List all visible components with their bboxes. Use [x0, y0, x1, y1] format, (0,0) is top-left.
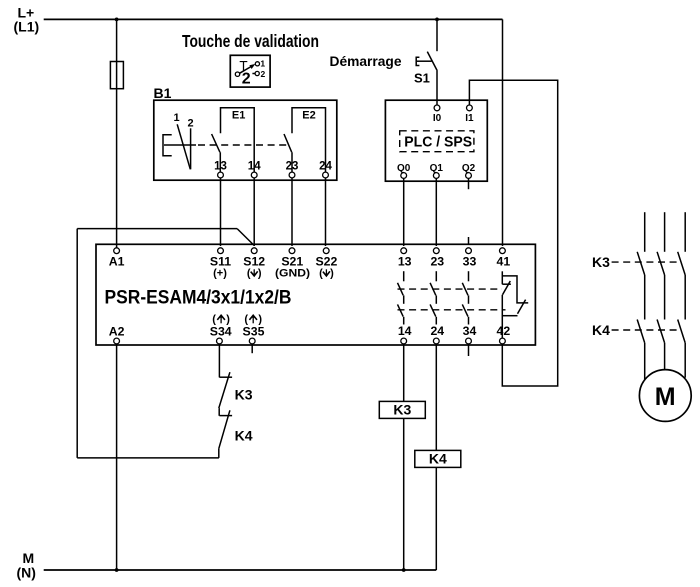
- svg-text:34: 34: [463, 324, 477, 338]
- wire rail to A1: [116, 19, 118, 247]
- svg-text:S12: S12: [243, 254, 265, 268]
- svg-text:S21: S21: [281, 254, 303, 268]
- svg-text:Touche de validation: Touche de validation: [182, 31, 319, 51]
- svg-text:E2: E2: [302, 110, 315, 122]
- svg-text:S11: S11: [210, 254, 231, 268]
- wire 14 to K3 coil: [403, 344, 405, 402]
- wire 13(B1) to S11: [220, 178, 222, 246]
- svg-text:K4: K4: [235, 428, 253, 444]
- terminal circle 41: [500, 248, 506, 254]
- aux contact K3 seat: [219, 376, 232, 378]
- wire 24(B1) to S22: [325, 178, 327, 246]
- svg-text:2: 2: [187, 118, 193, 130]
- wire Q2 stub: [468, 178, 470, 189]
- stub below S35: [251, 344, 253, 353]
- PLC / SPS dashed box: [400, 131, 474, 152]
- svg-text:I0: I0: [433, 113, 442, 124]
- svg-text:24: 24: [319, 161, 332, 173]
- B1 wire blade to 13: [219, 152, 221, 172]
- K4 contactor dashed linkage: [612, 329, 681, 331]
- B1 position line 2: [190, 128, 192, 169]
- svg-text:14: 14: [398, 324, 412, 338]
- B1 actuator bracket: [163, 135, 172, 156]
- aux contact K4 seat: [219, 415, 232, 417]
- wire S34 to K3 aux contact: [218, 344, 220, 378]
- svg-text:(: (: [319, 267, 323, 279]
- terminal circle S21: [289, 248, 295, 254]
- svg-text:S34: S34: [210, 324, 232, 338]
- PLC terminal circle I0: [434, 105, 440, 111]
- K4 contactor blade 3: [678, 320, 686, 343]
- terminal circle 23: [433, 248, 439, 254]
- B1 contact E2 blade: [284, 134, 292, 152]
- wire Q0 to 13: [403, 178, 405, 246]
- safety relay main box PSR-ESAM: [96, 244, 535, 345]
- label (up arrow) S35: [244, 313, 262, 325]
- wire A2 to bottom rail: [116, 344, 118, 570]
- PLC terminal circle Q1: [433, 173, 439, 179]
- B1 actuator line dashed: [198, 144, 290, 146]
- svg-text:1: 1: [173, 112, 179, 124]
- svg-text:A2: A2: [109, 324, 125, 338]
- K3 contactor blade 2: [657, 252, 665, 275]
- K3 contactor blade 3: [678, 252, 686, 275]
- svg-text:B1: B1: [154, 85, 172, 101]
- terminal circle A1: [114, 248, 120, 254]
- mechanical linkage dashed row 2: [398, 309, 506, 311]
- relay contact column 33-34: [462, 271, 468, 324]
- wire Q1 to 23: [435, 178, 437, 246]
- terminal circle 33: [466, 248, 472, 254]
- B1 position diagonal 1: [177, 124, 190, 169]
- validation key position 2 stub: [252, 73, 255, 75]
- wire I1 to 42 feedback loop: [469, 80, 557, 386]
- junction dot S1 tap: [435, 18, 439, 22]
- svg-text:K3: K3: [235, 386, 253, 402]
- svg-text:): ): [258, 267, 262, 279]
- svg-text:E1: E1: [232, 110, 245, 122]
- svg-text:13: 13: [214, 161, 227, 173]
- svg-text:PLC / SPS: PLC / SPS: [404, 134, 472, 150]
- terminal circle 24: [433, 338, 439, 344]
- wire S1 to I0: [436, 71, 438, 105]
- terminal circle S12: [251, 248, 257, 254]
- B1 terminal circle 14: [251, 172, 257, 178]
- wire 24 to K4 coil: [435, 344, 437, 451]
- svg-text:PSR-ESAM4/3x1/1x2/B: PSR-ESAM4/3x1/1x2/B: [105, 288, 292, 309]
- svg-text:): ): [330, 267, 334, 279]
- B1 terminal circle 23: [289, 172, 295, 178]
- terminal circle A2: [114, 338, 120, 344]
- phase wires K3 to K4: [645, 275, 686, 320]
- svg-text:42: 42: [497, 324, 511, 338]
- B1 wire blade to 23: [291, 152, 293, 172]
- relay contact column 23-24: [430, 271, 436, 324]
- PLC terminal circle I1: [467, 105, 473, 111]
- junction dot K3 rail: [402, 568, 406, 572]
- svg-text:33: 33: [463, 254, 477, 268]
- svg-text:Démarrage: Démarrage: [330, 53, 402, 69]
- svg-text:2: 2: [242, 70, 251, 87]
- aux contact K3 blade: [219, 372, 230, 408]
- terminal circle S34: [217, 338, 223, 344]
- wire M bottom rail: [44, 569, 437, 571]
- terminal circle 34: [466, 338, 472, 344]
- validation key symbol box: [230, 55, 270, 87]
- svg-text:K4: K4: [592, 322, 610, 338]
- relay NC contact 41-42: [502, 271, 528, 338]
- wire K3 to K4 aux: [218, 408, 220, 416]
- stub above 33: [468, 237, 470, 244]
- svg-text:A1: A1: [109, 254, 125, 268]
- three phase line 3 stub: [684, 212, 686, 252]
- node M (N) label: [17, 550, 36, 581]
- svg-text:M: M: [655, 383, 676, 411]
- mechanical linkage dashed row 1: [398, 288, 503, 290]
- K4 contactor blade 2: [657, 320, 665, 343]
- svg-text:(L1): (L1): [14, 19, 40, 35]
- svg-text:K3: K3: [592, 254, 610, 270]
- wire feedback loop left vertical: [76, 229, 78, 458]
- wire feedback loop S12 top horizontal: [77, 228, 237, 230]
- svg-text:I1: I1: [465, 113, 474, 124]
- wire L+ top rail: [44, 18, 503, 20]
- enable switch B1 box: [154, 100, 337, 180]
- svg-text:13: 13: [398, 254, 412, 268]
- switch S1 top lead: [436, 19, 438, 51]
- svg-text:41: 41: [497, 254, 511, 268]
- svg-text:(: (: [247, 267, 251, 279]
- K4 contactor blade 1: [637, 320, 645, 343]
- wire rail to terminal 41: [502, 19, 504, 246]
- svg-text:(GND): (GND): [275, 267, 310, 279]
- stub below 34: [468, 344, 470, 356]
- node L+ (L1) label: [14, 5, 40, 35]
- contactor coil K4: [415, 450, 461, 467]
- phase wires K4 to motor: [645, 343, 686, 381]
- svg-text:S22: S22: [315, 254, 337, 268]
- PLC terminal circle Q2: [466, 173, 472, 179]
- validation key position 2 circle: [255, 71, 259, 75]
- B1 contact E1 bracket wire 14: [221, 108, 255, 172]
- svg-text:S1: S1: [414, 71, 430, 86]
- fuse F1: [110, 62, 123, 89]
- validation key contact circle left: [235, 72, 239, 76]
- K3 contactor dashed linkage: [612, 261, 681, 263]
- svg-text:23: 23: [430, 254, 444, 268]
- B1 terminal circle 13: [218, 172, 224, 178]
- validation key arrow to position 1: [240, 66, 252, 73]
- wire K4 aux bottom: [218, 449, 220, 458]
- svg-text:2: 2: [261, 69, 266, 79]
- aux contact K4 blade: [219, 410, 230, 448]
- terminal circle 14: [401, 338, 407, 344]
- terminal circle 42: [500, 338, 506, 344]
- svg-text:14: 14: [248, 161, 261, 173]
- three phase line 1 stub: [644, 212, 646, 252]
- terminal circle S11: [218, 248, 224, 254]
- PLC box: [385, 100, 487, 181]
- K3 contactor blade 1: [637, 252, 645, 275]
- switch S1 actuator: [416, 57, 431, 65]
- svg-text:K4: K4: [429, 451, 447, 467]
- terminal circle S35: [249, 338, 255, 344]
- svg-text:23: 23: [286, 161, 299, 173]
- B1 contact E2 bracket wire 24: [292, 108, 326, 172]
- svg-text:1: 1: [260, 59, 265, 69]
- relay contact column 13-14: [398, 271, 404, 324]
- terminal circle S22: [323, 248, 329, 254]
- three phase line 2 stub: [664, 212, 666, 252]
- B1 actuator line solid: [164, 144, 196, 146]
- wire 14(B1) to S12: [253, 178, 255, 246]
- junction dot A2 rail: [115, 568, 119, 572]
- wire feedback loop diagonal to S12: [237, 229, 254, 246]
- label (up arrow) S34: [212, 313, 230, 325]
- junction dot fuse tap: [115, 18, 119, 22]
- validation key position 1 circle: [255, 62, 259, 66]
- svg-text:K3: K3: [393, 402, 411, 418]
- svg-text:24: 24: [430, 324, 444, 338]
- svg-text:(+): (+): [213, 267, 227, 279]
- B1 terminal circle 24: [323, 172, 329, 178]
- wire 23(B1) to S21: [291, 178, 293, 246]
- svg-text:(N): (N): [17, 565, 36, 581]
- PLC terminal circle Q0: [401, 173, 407, 179]
- terminal circle 13: [401, 248, 407, 254]
- wire K4 coil to bottom rail: [435, 467, 437, 570]
- wire feedback loop bottom horizontal: [77, 457, 219, 459]
- motor M: [639, 370, 691, 422]
- wire K3 coil to bottom rail: [403, 418, 405, 570]
- switch S1 blade: [427, 52, 437, 71]
- contactor coil K3: [379, 401, 425, 418]
- B1 contact E1 blade: [212, 134, 220, 152]
- svg-text:S35: S35: [243, 324, 265, 338]
